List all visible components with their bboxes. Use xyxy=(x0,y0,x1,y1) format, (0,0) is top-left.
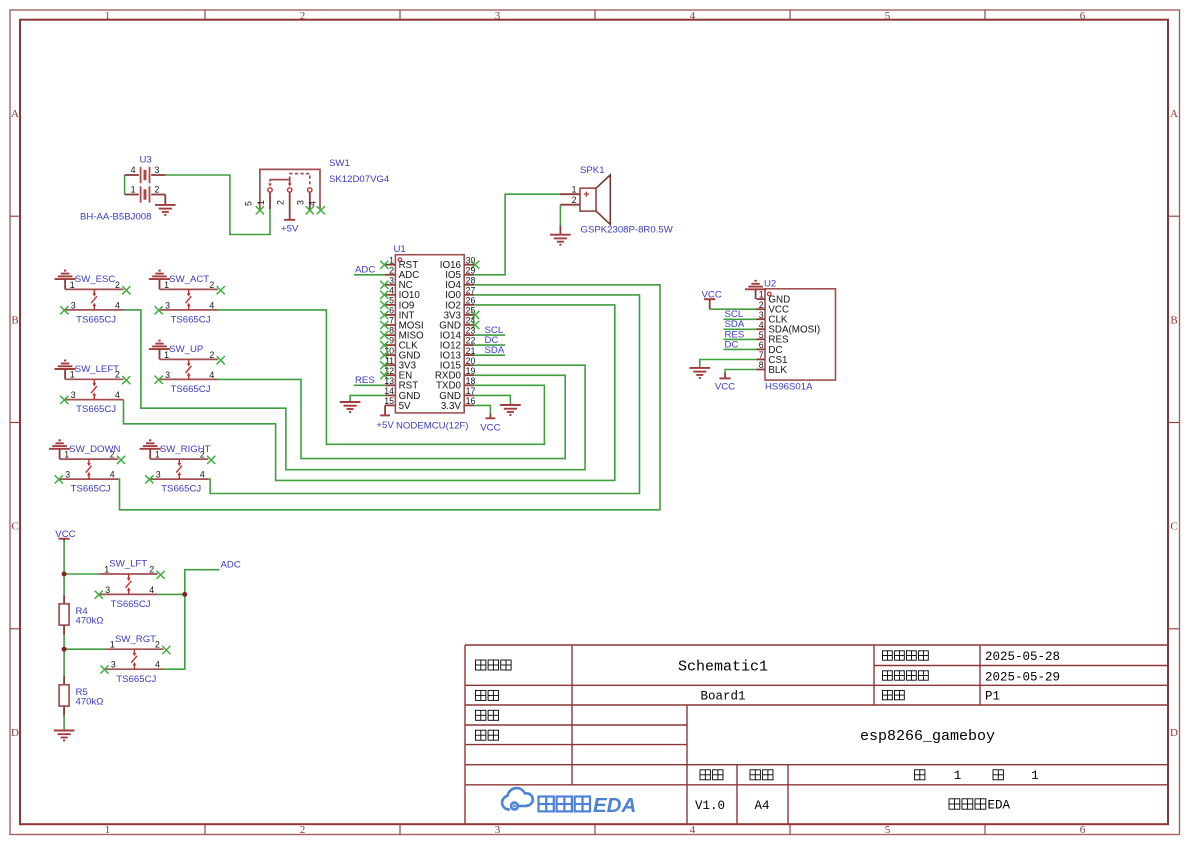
svg-text:4: 4 xyxy=(308,201,318,206)
svg-text:2: 2 xyxy=(115,280,120,290)
label gengxinriqi (updated date) xyxy=(883,671,893,680)
svg-text:6: 6 xyxy=(759,340,764,350)
ground (U1 pin14) xyxy=(340,402,361,412)
svg-text:TS665CJ: TS665CJ xyxy=(76,315,116,326)
svg-text:4: 4 xyxy=(110,470,115,480)
ground (SPK1) xyxy=(559,226,561,235)
svg-text:21: 21 xyxy=(466,346,476,356)
power flag VCC (U2 pin8) xyxy=(724,373,726,378)
wire net SCL to U2 pin3 xyxy=(724,318,757,320)
switch SW_DOWN xyxy=(49,440,125,494)
label shenyue (reviewed by) xyxy=(476,730,486,740)
wire VCC to resistor divider xyxy=(63,540,65,575)
svg-text:4: 4 xyxy=(115,390,120,400)
svg-text:470kΩ: 470kΩ xyxy=(76,615,104,626)
svg-text:3: 3 xyxy=(155,165,160,175)
svg-text:2: 2 xyxy=(209,280,214,290)
svg-text:3: 3 xyxy=(71,390,76,400)
switch SW_LFT xyxy=(95,559,165,610)
svg-text:GSPK2308P-8R0.5W: GSPK2308P-8R0.5W xyxy=(581,225,674,236)
svg-text:1: 1 xyxy=(1031,769,1039,783)
wire junction2 to R5 xyxy=(63,649,65,675)
svg-text:3: 3 xyxy=(65,470,70,480)
wire junction to R4 xyxy=(63,574,65,594)
ground (battery) xyxy=(155,205,176,215)
svg-text:TS665CJ: TS665CJ xyxy=(171,315,211,326)
svg-text:5: 5 xyxy=(389,296,394,306)
svg-text:U2: U2 xyxy=(764,278,776,289)
logo JLC EDA cloud xyxy=(502,788,533,809)
IC U2 HS96S01A xyxy=(757,278,836,392)
svg-text:16: 16 xyxy=(466,396,476,406)
svg-text:3: 3 xyxy=(111,660,116,670)
svg-text:+5V: +5V xyxy=(376,420,394,431)
svg-text:SW_RIGHT: SW_RIGHT xyxy=(160,444,211,455)
svg-text:1: 1 xyxy=(105,10,111,22)
svg-text:B: B xyxy=(1170,315,1177,327)
svg-text:SK12D07VG4: SK12D07VG4 xyxy=(329,174,390,185)
svg-text:9: 9 xyxy=(389,336,394,346)
svg-text:470kΩ: 470kΩ xyxy=(76,696,104,707)
wire SW_RGT pin4 to junction3 xyxy=(164,594,185,669)
svg-text:3: 3 xyxy=(156,470,161,480)
svg-text:4: 4 xyxy=(209,300,214,310)
svg-text:4: 4 xyxy=(155,660,160,670)
svg-text:A: A xyxy=(1170,108,1178,120)
svg-text:2025-05-28: 2025-05-28 xyxy=(985,650,1060,664)
power flag VCC (U1 pin16) xyxy=(489,413,491,418)
svg-text:4: 4 xyxy=(131,165,136,175)
svg-text:6: 6 xyxy=(1080,10,1086,22)
wire R5 to ground xyxy=(63,707,65,730)
label ye (page) xyxy=(915,770,925,780)
wire net RES at U1 pin13 xyxy=(354,384,385,386)
svg-text:4: 4 xyxy=(690,10,696,22)
wire net SDA at U1 pin21 xyxy=(474,354,505,356)
wire IO5 to SPK1 pin1 xyxy=(474,194,560,275)
svg-text:27: 27 xyxy=(466,285,476,295)
svg-text:4: 4 xyxy=(200,470,205,480)
svg-text:esp8266_gameboy: esp8266_gameboy xyxy=(860,728,995,745)
wire IO0 to SW_RIGHT pin4 xyxy=(208,295,639,494)
switch SW_RIGHT xyxy=(140,440,216,494)
power flag +5V (SW1) xyxy=(284,219,295,221)
wire SW_LFT pin4 to ADC flag xyxy=(158,570,220,595)
wire TXD0 to SW_ACT pin4 xyxy=(218,310,545,444)
svg-text:4: 4 xyxy=(759,320,764,330)
svg-text:8: 8 xyxy=(389,326,394,336)
svg-text:2: 2 xyxy=(155,185,160,195)
speaker SPK1 GSPK2308P-8R0.5W xyxy=(560,165,674,236)
wire R4 to junction2 xyxy=(63,626,65,649)
svg-text:3: 3 xyxy=(71,300,76,310)
svg-text:6: 6 xyxy=(389,306,394,316)
svg-text:SW_LFT: SW_LFT xyxy=(109,559,147,570)
ground (U2 pin1, inverted) xyxy=(755,289,757,299)
svg-text:DC: DC xyxy=(725,339,739,350)
svg-text:3: 3 xyxy=(759,310,764,320)
wire IO2 to SW_LEFT pin4 xyxy=(124,305,615,481)
svg-text:SPK1: SPK1 xyxy=(580,165,605,176)
svg-text:2025-05-29: 2025-05-29 xyxy=(985,670,1060,684)
svg-text:2: 2 xyxy=(276,200,286,205)
svg-text:Schematic1: Schematic1 xyxy=(678,658,768,675)
svg-text:1: 1 xyxy=(256,200,266,205)
svg-text:TS665CJ: TS665CJ xyxy=(111,599,151,610)
wire net DC to U2 pin6 xyxy=(724,348,757,350)
title block table xyxy=(465,645,1168,824)
svg-text:1: 1 xyxy=(389,255,394,265)
svg-text:A4: A4 xyxy=(754,799,769,813)
svg-text:2: 2 xyxy=(209,350,214,360)
wire VCC to U2 pin2 xyxy=(710,308,757,310)
svg-text:VCC: VCC xyxy=(480,423,500,434)
svg-text:14: 14 xyxy=(384,386,394,396)
svg-text:TS665CJ: TS665CJ xyxy=(116,674,156,685)
logo text jialichuang EDA xyxy=(539,797,554,812)
svg-text:4: 4 xyxy=(690,824,696,836)
svg-text:P1: P1 xyxy=(985,690,1000,704)
svg-text:Board1: Board1 xyxy=(700,690,745,704)
text jialichuang EDA (bottom) xyxy=(949,799,960,809)
svg-text:5: 5 xyxy=(885,10,891,22)
svg-text:3: 3 xyxy=(296,200,306,205)
switch SW_ESC xyxy=(55,271,131,326)
svg-text:26: 26 xyxy=(466,296,476,306)
wire IO15 to SW_ESC pin4 xyxy=(124,310,586,470)
wire net SDA to U2 pin4 xyxy=(724,328,757,330)
svg-text:4: 4 xyxy=(209,370,214,380)
label banzi (board) xyxy=(476,690,486,700)
svg-text:4: 4 xyxy=(149,585,154,595)
wire battery series link xyxy=(124,175,126,195)
svg-text:3: 3 xyxy=(165,370,170,380)
svg-text:TS665CJ: TS665CJ xyxy=(71,484,111,495)
svg-text:28: 28 xyxy=(466,275,476,285)
wire IO4 to SW_DOWN pin4 xyxy=(118,285,660,510)
svg-text:5: 5 xyxy=(885,824,891,836)
svg-text:2: 2 xyxy=(759,300,764,310)
wire U1 pin16 3.3V to VCC xyxy=(474,405,490,413)
svg-text:+5V: +5V xyxy=(281,223,299,234)
svg-text:V1.0: V1.0 xyxy=(695,799,725,813)
svg-text:EDA: EDA xyxy=(593,794,636,817)
svg-text:HS96S01A: HS96S01A xyxy=(765,381,813,392)
svg-text:A: A xyxy=(11,108,19,120)
svg-text:29: 29 xyxy=(466,265,476,275)
svg-text:3: 3 xyxy=(389,275,394,285)
svg-text:U1: U1 xyxy=(394,244,406,255)
ground (R5 bottom) xyxy=(54,731,75,741)
switch SW_LEFT xyxy=(55,361,131,416)
svg-text:7: 7 xyxy=(759,350,764,360)
label tuye (sheet) xyxy=(883,690,893,699)
label huizhi (drawn by) xyxy=(476,710,486,720)
svg-text:5: 5 xyxy=(244,201,254,206)
wire U1 pin14 GND xyxy=(350,395,385,401)
svg-text:1: 1 xyxy=(954,769,962,783)
switch SW_ACT xyxy=(149,271,225,326)
switch SW1 SK12D07VG4 xyxy=(244,158,390,220)
svg-text:4: 4 xyxy=(389,285,394,295)
svg-text:EDA: EDA xyxy=(988,799,1011,813)
svg-text:ADC: ADC xyxy=(355,265,375,276)
svg-text:5V: 5V xyxy=(399,401,411,412)
svg-text:BLK: BLK xyxy=(768,365,787,376)
label chicun (size) xyxy=(750,770,760,780)
IC U1 NODEMCU(12F) xyxy=(380,244,479,431)
svg-text:5: 5 xyxy=(759,330,764,340)
svg-text:SW_LEFT: SW_LEFT xyxy=(75,364,119,375)
wire SPK1 pin2 to ground xyxy=(559,205,561,226)
svg-text:15: 15 xyxy=(384,396,394,406)
svg-text:13: 13 xyxy=(384,376,394,386)
battery U3 BH-AA-B5BJ008 xyxy=(80,155,165,223)
wire RXD0 to SW_UP pin4 xyxy=(218,375,565,458)
wire U2 pin7 CS1 to ground xyxy=(700,360,757,368)
svg-text:SW1: SW1 xyxy=(329,158,350,169)
switch SW_UP xyxy=(149,341,225,395)
svg-text:TS665CJ: TS665CJ xyxy=(76,404,116,415)
svg-text:2: 2 xyxy=(572,195,577,205)
svg-text:22: 22 xyxy=(466,336,476,346)
svg-text:D: D xyxy=(1170,727,1178,739)
svg-text:6: 6 xyxy=(1080,824,1086,836)
wire U2 pin8 BLK to VCC xyxy=(725,370,757,374)
svg-text:ADC: ADC xyxy=(221,560,241,571)
wire junction to SW_LFT pin1 xyxy=(64,573,100,575)
resistor R5 470k&#937; xyxy=(59,675,103,715)
wire net ADC at U1 pin2 xyxy=(354,274,385,276)
svg-text:2: 2 xyxy=(389,265,394,275)
svg-text:3: 3 xyxy=(105,585,110,595)
svg-text:4: 4 xyxy=(115,300,120,310)
svg-text:TS665CJ: TS665CJ xyxy=(161,484,201,495)
wire battery to SW1 pole1 xyxy=(165,175,271,235)
svg-text:SW_UP: SW_UP xyxy=(169,344,203,355)
svg-text:7: 7 xyxy=(389,316,394,326)
svg-text:3: 3 xyxy=(165,300,170,310)
svg-text:8: 8 xyxy=(759,360,764,370)
label gong (of) xyxy=(993,770,1003,780)
svg-text:SW_ACT: SW_ACT xyxy=(169,274,209,285)
svg-text:19: 19 xyxy=(466,366,476,376)
svg-text:TS665CJ: TS665CJ xyxy=(171,384,211,395)
svg-text:SW_ESC: SW_ESC xyxy=(75,274,116,285)
svg-text:NODEMCU(12F): NODEMCU(12F) xyxy=(396,420,469,431)
svg-text:2: 2 xyxy=(300,10,306,22)
ground (U2 pin7) xyxy=(690,368,711,378)
svg-text:3: 3 xyxy=(495,10,501,22)
svg-text:3: 3 xyxy=(495,824,501,836)
svg-text:U3: U3 xyxy=(140,155,152,166)
power flag +5V (U1 pin15) xyxy=(384,405,386,415)
svg-text:SW_DOWN: SW_DOWN xyxy=(69,444,120,455)
wire net RES to U2 pin5 xyxy=(724,338,757,340)
svg-text:17: 17 xyxy=(466,386,476,396)
label banben (version) xyxy=(700,770,710,780)
label yuanlitu (schematic) xyxy=(476,660,486,670)
resistor R4 470k&#937; xyxy=(59,594,103,634)
svg-text:B: B xyxy=(11,315,18,327)
svg-text:18: 18 xyxy=(466,376,476,386)
ground (U1 pin17) xyxy=(509,404,511,407)
svg-text:2: 2 xyxy=(149,564,154,574)
wire junction2 to SW_RGT pin1 xyxy=(64,648,105,650)
label chuangjianriqi (created date) xyxy=(883,651,893,660)
svg-text:1: 1 xyxy=(759,290,764,300)
svg-text:VCC: VCC xyxy=(715,381,735,392)
svg-text:SDA: SDA xyxy=(485,345,505,356)
wire net SCL at U1 pin23 xyxy=(474,334,505,336)
wire net DC at U1 pin22 xyxy=(474,344,505,346)
svg-text:BH-AA-B5BJ008: BH-AA-B5BJ008 xyxy=(80,212,151,223)
svg-text:23: 23 xyxy=(466,326,476,336)
junction dots xyxy=(62,572,67,577)
svg-text:RES: RES xyxy=(355,375,375,386)
svg-text:2: 2 xyxy=(300,824,306,836)
svg-text:3.3V: 3.3V xyxy=(441,401,462,412)
svg-text:C: C xyxy=(1170,521,1177,533)
svg-text:1: 1 xyxy=(105,824,111,836)
svg-text:C: C xyxy=(11,521,18,533)
svg-text:SW_RGT: SW_RGT xyxy=(115,634,156,645)
svg-text:1: 1 xyxy=(572,184,577,194)
battery pin2 to ground wire xyxy=(164,195,166,205)
switch SW_RGT xyxy=(100,634,170,685)
svg-text:1: 1 xyxy=(131,185,136,195)
svg-text:D: D xyxy=(11,727,19,739)
wire U1 pin17 GND xyxy=(474,395,510,404)
svg-text:20: 20 xyxy=(466,356,476,366)
